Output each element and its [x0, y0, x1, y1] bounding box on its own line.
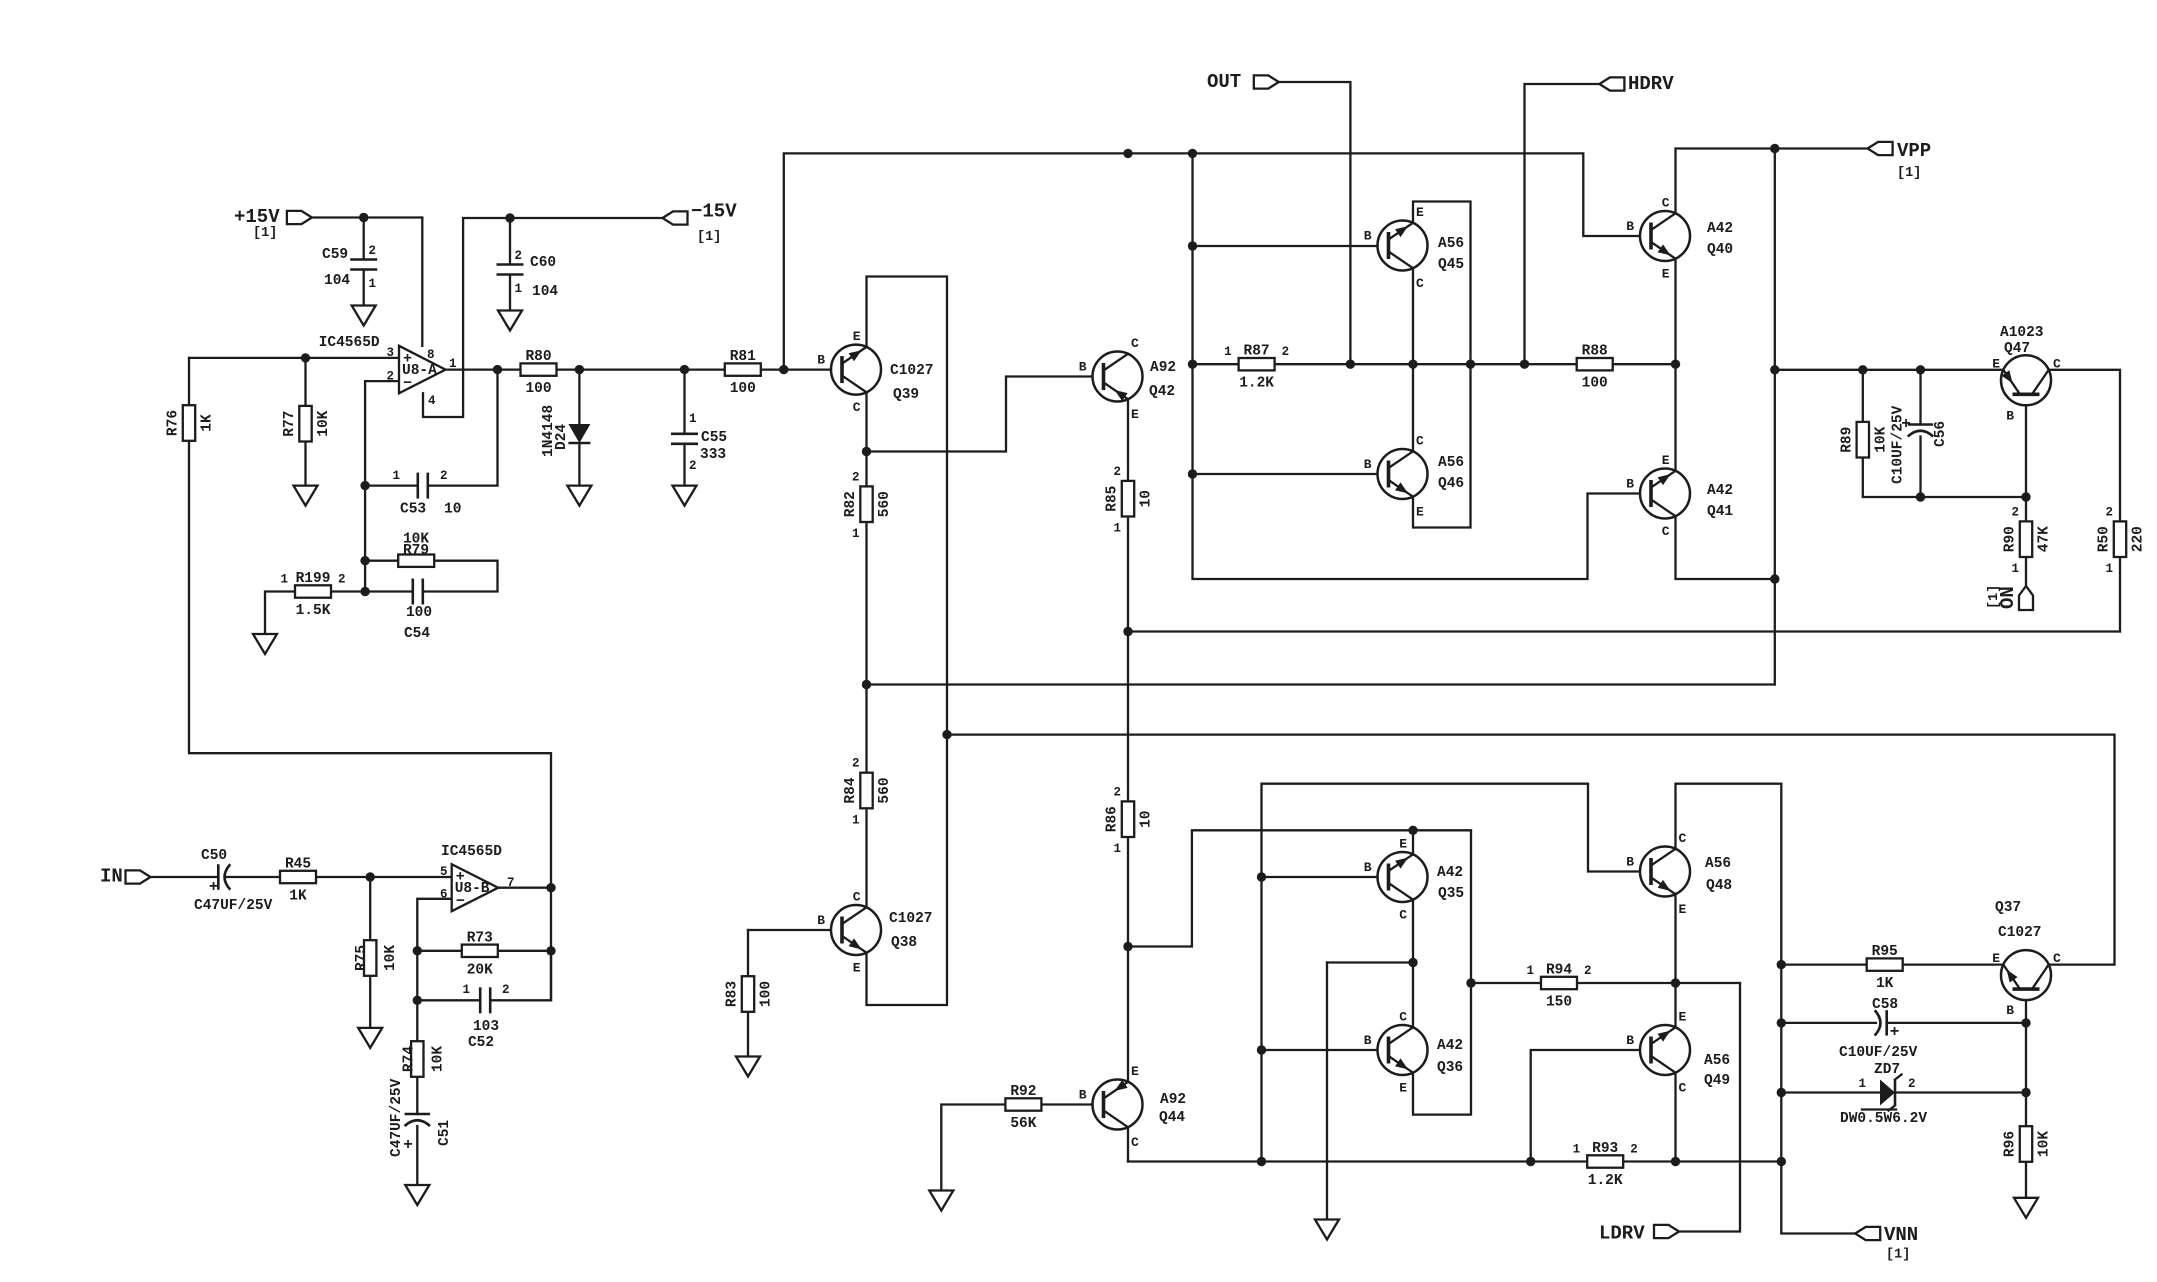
- svg-text:2: 2: [1282, 345, 1290, 359]
- svg-text:E: E: [1399, 1081, 1407, 1096]
- net flag HDRV: [1599, 73, 1674, 95]
- junction R93 row/Q49 collector: [1671, 1157, 1680, 1166]
- wire R73 left lead: [417, 950, 462, 952]
- svg-text:56K: 56K: [1010, 1116, 1036, 1132]
- svg-text:2: 2: [369, 244, 377, 258]
- svg-text:100: 100: [1582, 376, 1608, 392]
- wire Q35 collector lead: [1412, 900, 1414, 963]
- svg-text:C1027: C1027: [889, 911, 933, 927]
- wire C60 top: [509, 218, 511, 265]
- svg-text:Q35: Q35: [1438, 886, 1464, 902]
- wire Q36 collector lead: [1412, 963, 1414, 1028]
- svg-text:R75: R75: [354, 945, 370, 971]
- svg-text:2: 2: [502, 983, 510, 997]
- wire R77 top lead: [304, 358, 306, 406]
- junction R88/Q40/Q41 emitters: [1671, 360, 1680, 369]
- wire R81 to Q39 base: [760, 368, 842, 370]
- wire Q35 emitter stub: [1412, 830, 1414, 854]
- svg-text:U8-B: U8-B: [455, 881, 490, 897]
- wire C60 to ground: [509, 275, 511, 311]
- net flag OUT: [1207, 71, 1279, 93]
- transistor Q41: [1626, 453, 1733, 539]
- svg-text:104: 104: [324, 273, 350, 289]
- svg-text:1: 1: [392, 469, 400, 483]
- svg-text:Q48: Q48: [1706, 878, 1732, 894]
- transistor Q40: [1626, 196, 1733, 282]
- junction C53/pin2 node: [360, 481, 369, 490]
- junction Q39 collector/R82: [862, 447, 871, 456]
- svg-text:A42: A42: [1707, 483, 1733, 499]
- wire R83 to ground: [747, 1012, 749, 1057]
- resistor R86: [1105, 785, 1155, 856]
- svg-text:2: 2: [2011, 505, 2019, 519]
- resistor R87: [1224, 344, 1289, 392]
- svg-text:C: C: [2053, 356, 2061, 371]
- svg-text:C60: C60: [530, 255, 556, 271]
- svg-text:R92: R92: [1010, 1084, 1036, 1100]
- svg-text:IC4565D: IC4565D: [441, 844, 502, 860]
- ground R92: [929, 1191, 953, 1211]
- net flag IN: [100, 866, 151, 888]
- resistor R74: [401, 1041, 446, 1077]
- svg-text:R85: R85: [1105, 486, 1121, 512]
- capacitor C60 labels: [515, 249, 559, 300]
- wire Q39 emitter loop to Q38 emitter: [867, 277, 948, 1006]
- svg-text:10K: 10K: [2037, 1131, 2053, 1157]
- resistor R80: [521, 349, 557, 397]
- junction output/feedback column: [546, 883, 555, 892]
- svg-text:C: C: [1662, 524, 1670, 539]
- wire Q44 emitter lead: [1127, 947, 1129, 1082]
- wire ZD7 cathode lead: [1895, 1091, 2026, 1093]
- junction R86/Q44 emitter: [1123, 942, 1132, 951]
- svg-text:B: B: [1626, 1033, 1634, 1048]
- wire C58 right lead: [1887, 1022, 2026, 1024]
- resistor R73: [462, 930, 498, 978]
- svg-text:Q42: Q42: [1149, 384, 1175, 400]
- svg-text:20K: 20K: [467, 962, 493, 978]
- svg-text:E: E: [1679, 1010, 1687, 1025]
- svg-text:1: 1: [2105, 562, 2113, 576]
- resistor R50: [2097, 505, 2147, 576]
- svg-text:C: C: [853, 890, 861, 905]
- wire U8-A pin2 feedback node: [365, 381, 399, 591]
- svg-text:R76: R76: [166, 410, 182, 436]
- resistor R85: [1105, 465, 1155, 536]
- junction VPP column/R89 row: [1770, 365, 1779, 374]
- wire R94 to LDRV column: [1577, 982, 1740, 984]
- capacitor C53 plates: [417, 472, 429, 500]
- wire C58 left lead: [1781, 1022, 1876, 1024]
- svg-text:Q38: Q38: [891, 935, 917, 951]
- ground R199: [253, 634, 277, 654]
- svg-text:E: E: [853, 329, 861, 344]
- svg-text:C10UF/25V: C10UF/25V: [1839, 1045, 1918, 1061]
- wire R82 bottom to row A: [865, 522, 867, 685]
- svg-text:2: 2: [852, 470, 860, 484]
- junction C56 bottom: [1916, 492, 1925, 501]
- wire R93 row right: [1623, 1160, 1781, 1162]
- wire C53 right to output: [429, 370, 498, 486]
- junction top rail/Q42 collector: [1123, 149, 1132, 158]
- resistor R88: [1577, 344, 1613, 392]
- svg-text:C50: C50: [201, 848, 227, 864]
- junction pin6/R73: [413, 946, 422, 955]
- svg-text:1: 1: [369, 277, 377, 291]
- svg-text:C1027: C1027: [890, 363, 934, 379]
- svg-text:A92: A92: [1150, 360, 1176, 376]
- wire IN to C50: [151, 876, 219, 878]
- resistor R76: [166, 405, 216, 441]
- resistor R96: [2003, 1126, 2053, 1162]
- wire R88 right lead: [1613, 363, 1676, 365]
- wire row C to R50: [1128, 630, 2120, 632]
- wire C55 to ground: [683, 445, 685, 486]
- svg-text:1K: 1K: [1876, 976, 1894, 992]
- svg-text:150: 150: [1546, 995, 1572, 1011]
- svg-text:2: 2: [1630, 1143, 1638, 1157]
- wire Q40 emitter lead: [1674, 259, 1676, 365]
- net flag VPP: [1868, 140, 1932, 181]
- wire C51 to ground: [416, 1126, 418, 1185]
- wire R89 top lead: [1862, 370, 1864, 422]
- capacitor C59 plates: [350, 259, 378, 271]
- junction pin6/C52: [413, 996, 422, 1005]
- junction C55: [680, 365, 689, 374]
- svg-text:E: E: [1416, 505, 1424, 520]
- svg-text:3: 3: [386, 346, 394, 360]
- ground C60: [498, 311, 522, 331]
- transistor Q46: [1364, 434, 1464, 520]
- svg-text:R90: R90: [2003, 526, 2019, 552]
- capacitor C52 labels: [462, 983, 509, 1051]
- wire D24 top lead: [578, 370, 580, 424]
- svg-text:2: 2: [1908, 1077, 1916, 1091]
- junction Q37 base/C58: [2021, 1018, 2030, 1027]
- svg-text:2: 2: [338, 573, 346, 587]
- svg-text:1: 1: [462, 983, 470, 997]
- resistor R84: [843, 757, 893, 828]
- svg-text:10: 10: [444, 502, 461, 518]
- svg-text:104: 104: [532, 284, 558, 300]
- wire C54 left lead: [365, 590, 411, 592]
- wire R77 to ground: [304, 442, 306, 486]
- svg-text:Q36: Q36: [1437, 1060, 1463, 1076]
- svg-text:C51: C51: [437, 1120, 453, 1146]
- wire Q37 base to R96 to ground: [2025, 989, 2027, 1198]
- svg-text:2: 2: [852, 757, 860, 771]
- junction R85/R86/row C: [1123, 627, 1132, 636]
- wire Q47 collector to R50: [2049, 370, 2120, 522]
- wire Q38 base lead: [748, 929, 842, 931]
- svg-text:C: C: [1679, 831, 1687, 846]
- junction -15V/C60: [505, 213, 514, 222]
- svg-text:1: 1: [1526, 964, 1534, 978]
- svg-text:OUT: OUT: [1207, 71, 1241, 93]
- wire R45 to U8-B pin5: [316, 876, 452, 878]
- svg-text:1: 1: [1224, 345, 1232, 359]
- junction bias column/R93 row: [1257, 1157, 1266, 1166]
- svg-text:2: 2: [689, 459, 697, 473]
- ground C59: [352, 306, 376, 326]
- wire R75 top lead: [369, 877, 371, 940]
- resistor R77: [282, 406, 332, 442]
- svg-text:1: 1: [2011, 562, 2019, 576]
- svg-text:100: 100: [406, 605, 432, 621]
- wire R95 left lead: [1781, 963, 1866, 965]
- svg-text:E: E: [1131, 1064, 1139, 1079]
- svg-text:D24: D24: [554, 424, 570, 450]
- junction R89 top: [1858, 365, 1867, 374]
- wire R84 to Q38 collector: [865, 808, 867, 907]
- svg-text:IN: IN: [100, 866, 123, 888]
- svg-text:C: C: [1416, 276, 1424, 291]
- transistor Q44: [1079, 1064, 1186, 1150]
- resistor R89: [1839, 422, 1889, 458]
- wire R80 to R81: [556, 368, 725, 370]
- svg-text:R94: R94: [1546, 963, 1572, 979]
- svg-text:B: B: [1079, 1088, 1087, 1103]
- wire R86 bottom lead: [1127, 837, 1129, 947]
- transistor Q35: [1364, 837, 1464, 923]
- wire R79 left lead: [365, 560, 398, 562]
- svg-text:B: B: [1364, 860, 1372, 875]
- svg-text:47K: 47K: [2037, 526, 2053, 552]
- wire Q46 base lead: [1193, 473, 1389, 475]
- resistor R83: [725, 976, 775, 1012]
- wire D24 to ground: [578, 443, 580, 486]
- wire Q48 base to bias column: [1262, 784, 1652, 1162]
- svg-text:10K: 10K: [383, 945, 399, 971]
- wire R89 row to Q47 emitter: [1775, 369, 2004, 371]
- junction R81/top rail: [779, 365, 788, 374]
- junction C54/R199/pin2 node: [360, 587, 369, 596]
- junction R96/ZD7: [2021, 1088, 2030, 1097]
- wire C52 left lead: [417, 999, 480, 1001]
- transistor Q49: [1626, 1010, 1730, 1096]
- svg-text:E: E: [1992, 951, 2000, 966]
- svg-text:U8-A: U8-A: [402, 363, 437, 379]
- wire Q39 collector lead: [865, 393, 867, 452]
- wire R75 to ground: [369, 976, 371, 1028]
- svg-text:C: C: [1416, 434, 1424, 449]
- capacitor C58 (polar): [1839, 997, 1918, 1061]
- svg-text:R74: R74: [401, 1046, 417, 1072]
- wire Q42 emitter to R85: [1127, 399, 1129, 481]
- svg-text:B: B: [817, 353, 825, 368]
- svg-text:R199: R199: [296, 571, 331, 587]
- svg-text:560: 560: [877, 491, 893, 517]
- junction Q35 emitter: [1408, 826, 1417, 835]
- svg-text:8: 8: [427, 348, 435, 362]
- junction VNN column/R93 row: [1777, 1157, 1786, 1166]
- wire HDRV flag down: [1525, 84, 1600, 364]
- wire top rail to Q40 base: [784, 153, 1652, 369]
- op-amp U8-A: [386, 346, 456, 408]
- svg-text:C: C: [1399, 908, 1407, 923]
- junction Q47 base/R90: [2021, 492, 2030, 501]
- svg-text:R84: R84: [843, 777, 859, 803]
- wire R93 row left: [1128, 1160, 1588, 1162]
- wire +15V rail to U8-A pin8: [312, 218, 422, 346]
- wire -15V rail to U8-A pin4: [423, 218, 663, 417]
- svg-text:A42: A42: [1437, 865, 1463, 881]
- svg-text:C58: C58: [1872, 997, 1898, 1013]
- capacitor C59 labels: [322, 244, 376, 291]
- svg-text:A1023: A1023: [2000, 325, 2044, 341]
- wire R73 right lead: [498, 950, 552, 952]
- junction C56 top: [1916, 365, 1925, 374]
- ground C51: [405, 1185, 429, 1205]
- svg-text:Q47: Q47: [2004, 341, 2030, 357]
- resistor R45: [280, 857, 316, 905]
- svg-text:220: 220: [2131, 526, 2147, 552]
- svg-text:10K: 10K: [316, 410, 332, 436]
- svg-text:B: B: [817, 913, 825, 928]
- wire output column down: [550, 888, 552, 1001]
- junction OUT/R87: [1346, 360, 1355, 369]
- transistor Q37: [1992, 900, 2061, 1018]
- wire collectors to ground column: [1327, 961, 1413, 963]
- ground Q35/Q36 collectors: [1315, 1220, 1339, 1240]
- wire LDRV column: [1679, 983, 1740, 1232]
- svg-text:100: 100: [759, 981, 775, 1007]
- wire Q41 collector to VPP column: [1676, 516, 1775, 579]
- junction D24: [575, 365, 584, 374]
- svg-text:C: C: [2053, 951, 2061, 966]
- svg-text:10K: 10K: [1873, 426, 1889, 452]
- wire U8-A output to R80: [446, 368, 521, 370]
- svg-text:C: C: [1131, 336, 1139, 351]
- svg-text:[1]: [1]: [1987, 585, 2002, 609]
- junction R93/Q49 base: [1526, 1157, 1535, 1166]
- capacitor C56 (polar): [1891, 405, 1950, 484]
- svg-text:[1]: [1]: [1886, 1248, 1910, 1263]
- svg-text:+: +: [209, 878, 219, 896]
- wire R199 right lead: [330, 590, 365, 592]
- wire R82 top lead: [865, 452, 867, 487]
- junction row/HDRV: [1520, 360, 1529, 369]
- svg-text:R82: R82: [843, 491, 859, 517]
- capacitor C53 labels: [392, 469, 461, 518]
- wire U8-A pin3 input: [189, 357, 399, 359]
- capacitor C54 labels: [404, 605, 432, 642]
- svg-text:1.5K: 1.5K: [296, 603, 331, 619]
- wire Q45 base lead: [1193, 245, 1389, 247]
- net flag +15V: [234, 206, 312, 241]
- junction R95/VNN column: [1777, 960, 1786, 969]
- svg-text:R93: R93: [1592, 1141, 1618, 1157]
- resistor R90: [2003, 505, 2053, 576]
- svg-text:2: 2: [386, 370, 394, 384]
- transistor Q38: [817, 890, 932, 976]
- ground R75: [358, 1028, 382, 1048]
- svg-text:333: 333: [700, 447, 726, 463]
- svg-text:R96: R96: [2003, 1131, 2019, 1157]
- junction emitter loop/row B: [942, 730, 951, 739]
- wire R84 top lead: [865, 685, 867, 773]
- wire R89 bottom row: [1863, 458, 2026, 498]
- svg-text:R73: R73: [467, 930, 493, 946]
- junction bias column/Q35 base: [1257, 872, 1266, 881]
- transistor Q39: [817, 329, 933, 415]
- wire R83 top lead: [747, 930, 749, 976]
- wire row A to VPP column: [867, 683, 1775, 685]
- ground D24: [567, 486, 591, 506]
- resistor R93: [1573, 1141, 1638, 1189]
- svg-text:E: E: [1416, 205, 1424, 220]
- junction output/C53: [493, 365, 502, 374]
- svg-text:A92: A92: [1160, 1092, 1186, 1108]
- svg-text:B: B: [1364, 457, 1372, 472]
- junction +15V/C59: [359, 213, 368, 222]
- wire ZD7 anode lead: [1781, 1091, 1880, 1093]
- junction R94/Q48/Q49 emitters: [1671, 978, 1680, 987]
- svg-text:1.2K: 1.2K: [1588, 1173, 1623, 1189]
- junction VPP flag/Q40 collector: [1770, 144, 1779, 153]
- svg-text:2: 2: [1584, 964, 1592, 978]
- capacitor C60 plates: [496, 264, 524, 276]
- capacitor C50 (polar): [194, 848, 273, 914]
- wire R95 to Q37 emitter: [1903, 963, 2003, 965]
- svg-text:A56: A56: [1704, 1053, 1730, 1069]
- svg-text:B: B: [2006, 1003, 2014, 1018]
- svg-text:B: B: [1626, 219, 1634, 234]
- svg-text:R79: R79: [403, 543, 429, 559]
- svg-text:2: 2: [515, 249, 523, 263]
- resistor R79: [398, 555, 434, 567]
- wire C52 right to output column: [491, 951, 552, 1001]
- wire C56 bottom lead: [1919, 437, 1921, 498]
- svg-text:C47UF/25V: C47UF/25V: [389, 1078, 405, 1157]
- wire R76 bottom to U8-B output: [189, 441, 551, 888]
- svg-text:1: 1: [1573, 1143, 1581, 1157]
- svg-text:B: B: [1626, 477, 1634, 492]
- junction ZD7/VNN column: [1777, 1088, 1786, 1097]
- resistor R81: [725, 349, 761, 397]
- svg-text:C56: C56: [1933, 421, 1949, 447]
- resistor R94: [1526, 963, 1591, 1011]
- svg-text:560: 560: [877, 777, 893, 803]
- svg-text:+15V: +15V: [234, 206, 280, 228]
- wire R92 left to ground: [941, 1105, 1006, 1191]
- svg-text:B: B: [1364, 229, 1372, 244]
- svg-text:R81: R81: [730, 349, 756, 365]
- ground R77: [294, 486, 318, 506]
- wire C56 top lead: [1919, 370, 1921, 425]
- svg-text:A56: A56: [1438, 236, 1464, 252]
- junction bias column/Q36 base: [1257, 1045, 1266, 1054]
- svg-text:A42: A42: [1707, 221, 1733, 237]
- zener diode ZD7: [1840, 1062, 1927, 1127]
- svg-text:1: 1: [1858, 1077, 1866, 1091]
- capacitor C51 (polar): [389, 1078, 453, 1157]
- svg-text:B: B: [1626, 855, 1634, 870]
- svg-text:R87: R87: [1244, 344, 1270, 360]
- svg-text:10: 10: [1139, 810, 1155, 827]
- svg-text:LDRV: LDRV: [1599, 1223, 1645, 1245]
- svg-text:Q44: Q44: [1159, 1110, 1185, 1126]
- wire R92 to Q44 base: [1041, 1103, 1104, 1105]
- diode D24: [541, 405, 590, 457]
- junction column/R87: [1188, 360, 1197, 369]
- wire Q47 base lead: [2025, 394, 2027, 497]
- svg-text:R45: R45: [285, 857, 311, 873]
- wire R87 to R88: [1274, 363, 1576, 365]
- svg-text:5: 5: [440, 865, 448, 879]
- svg-text:1: 1: [689, 412, 697, 426]
- svg-text:7: 7: [507, 876, 515, 890]
